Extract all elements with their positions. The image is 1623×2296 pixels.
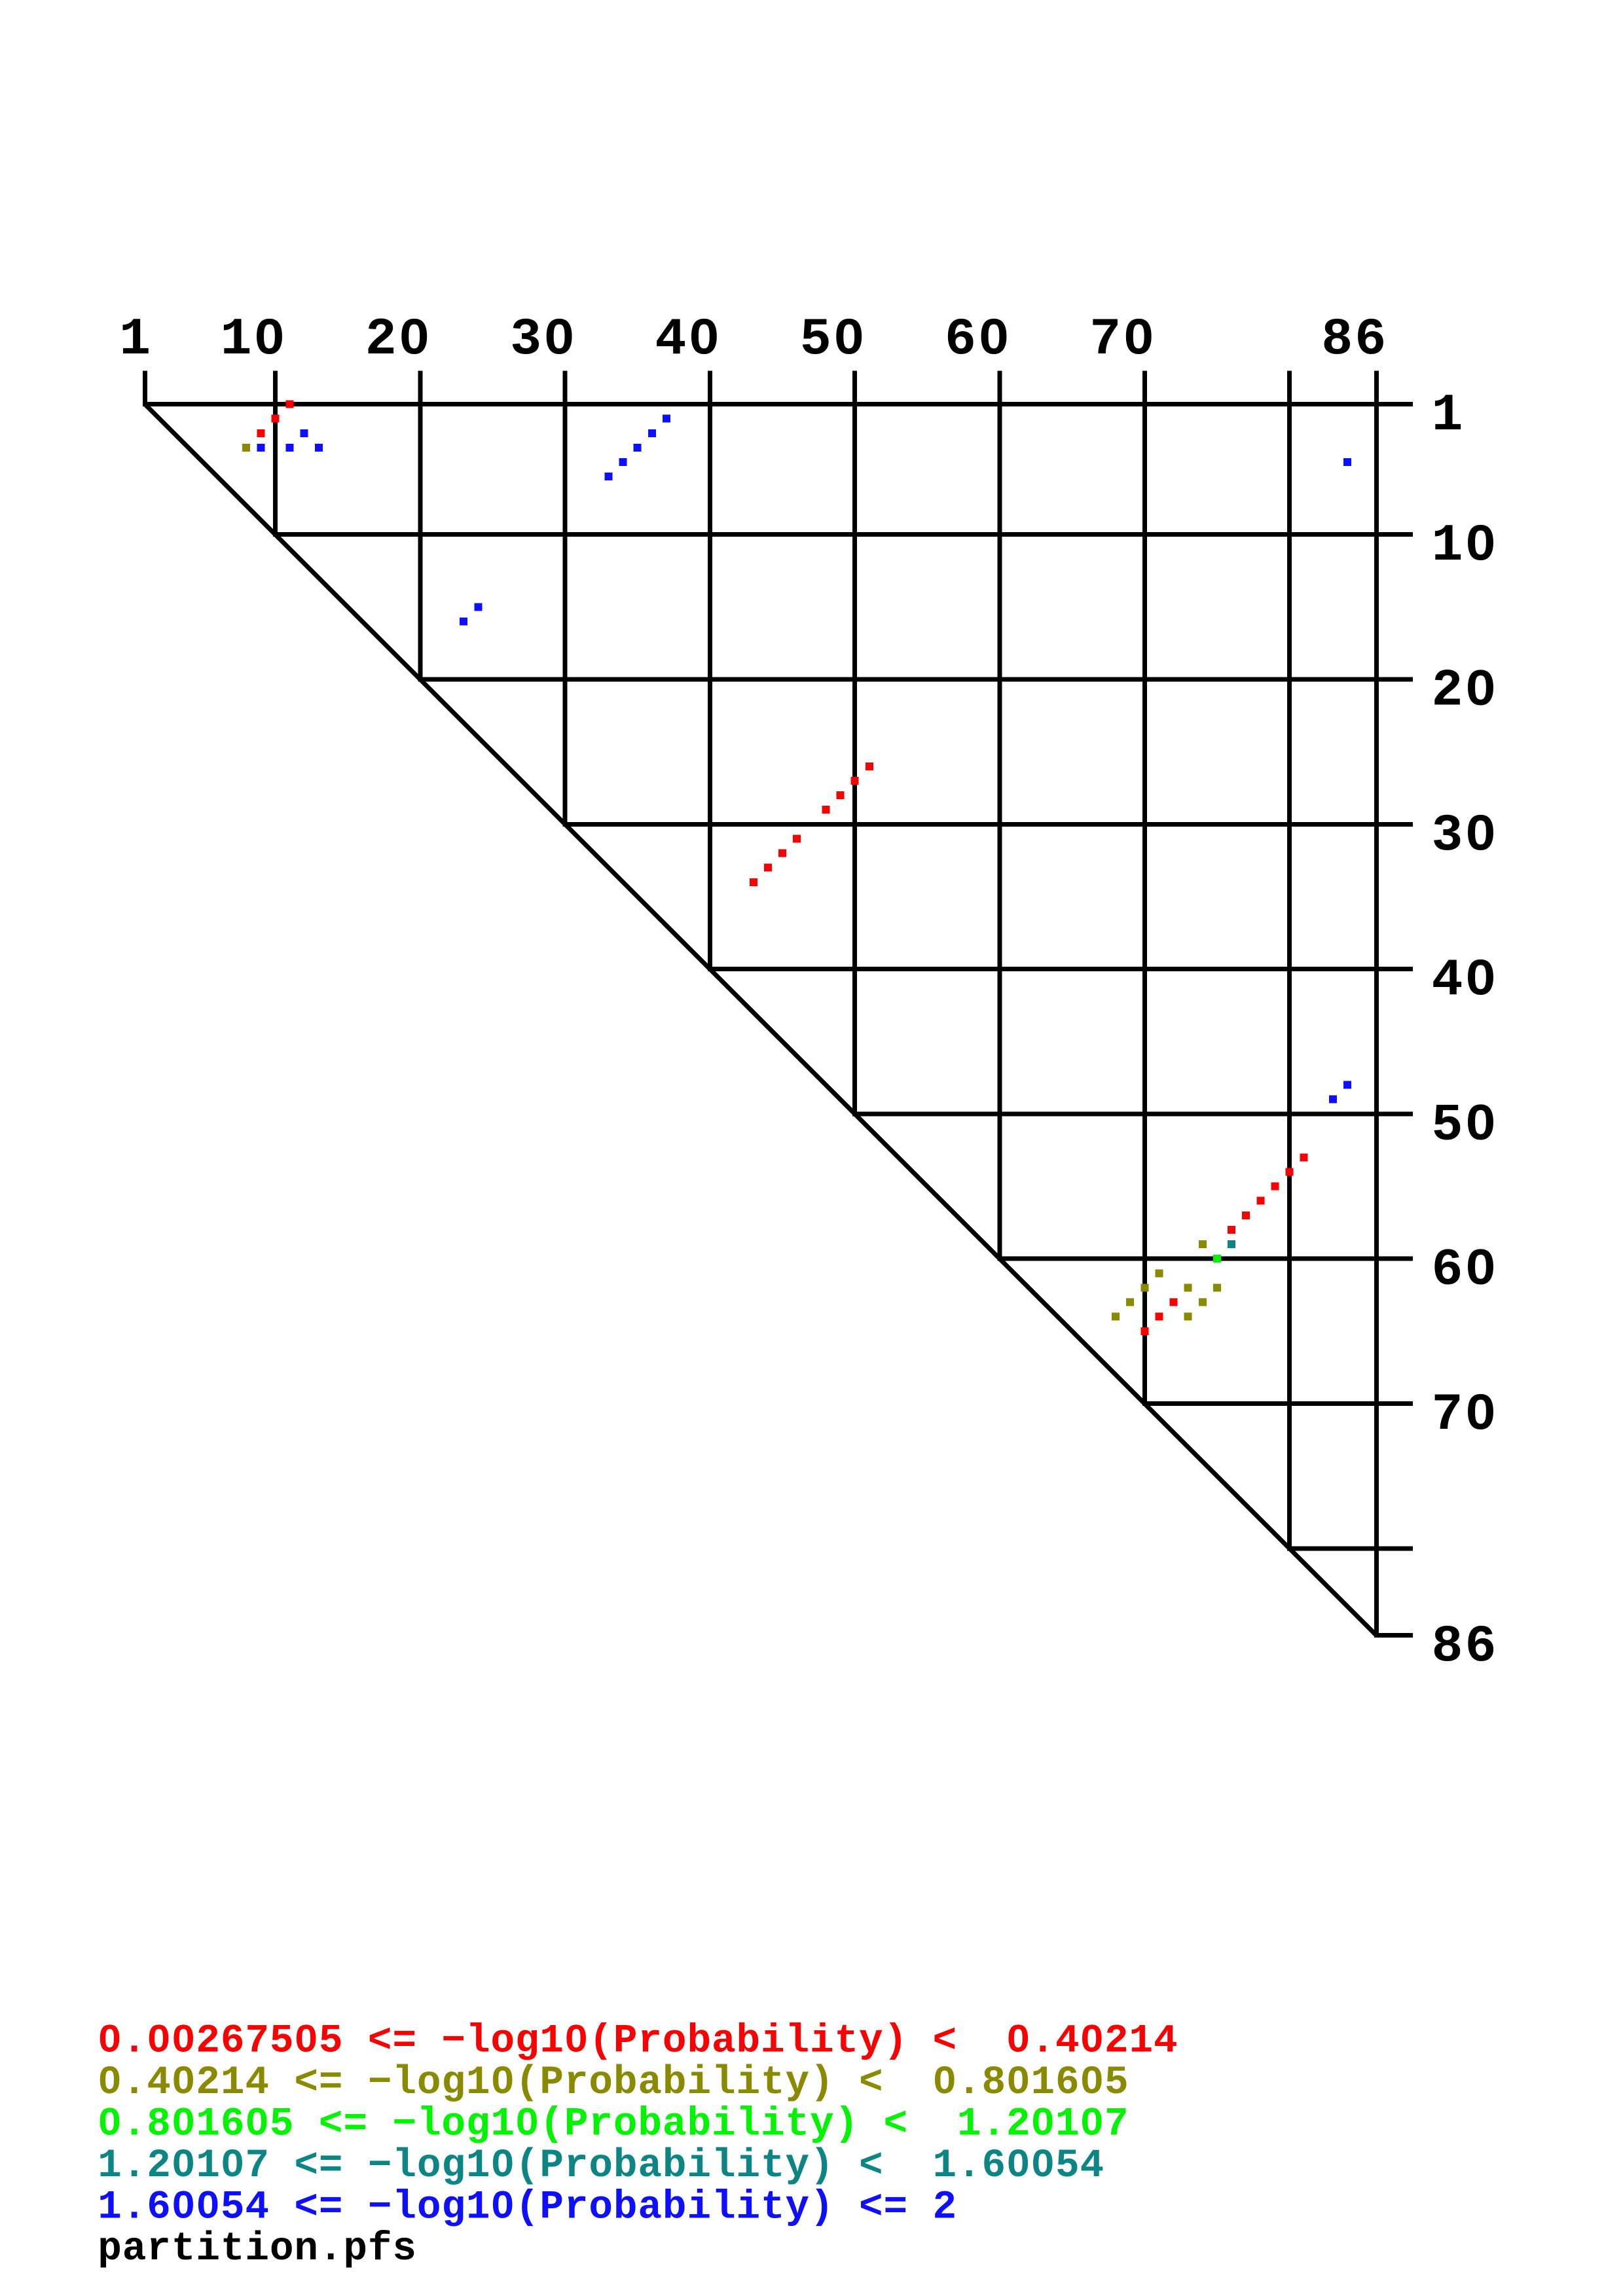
dot i=49 j=83 blue <box>1329 1096 1337 1103</box>
dot i=4 j=9 blue <box>257 444 264 452</box>
svg-text:60: 60 <box>945 310 1012 370</box>
svg-text:1: 1 <box>119 310 153 370</box>
dot i=34 j=43 red <box>750 878 757 886</box>
svg-text:partition.pfs: partition.pfs <box>98 2227 417 2272</box>
dot i=62 j=70 olive <box>1140 1283 1148 1291</box>
svg-text:20: 20 <box>365 310 432 370</box>
dot i=4 j=11 blue <box>286 444 294 452</box>
svg-text:70: 70 <box>1089 310 1156 370</box>
dot i=57 j=77 red <box>1242 1211 1250 1219</box>
column grid line position 50 <box>852 371 857 1117</box>
dot i=61 j=71 olive <box>1155 1269 1163 1277</box>
dot i=29 j=48 red <box>822 806 830 814</box>
patches to plain ovals for zero glyphs <box>107 331 1484 2208</box>
svg-text:10: 10 <box>220 310 287 370</box>
dot i=62 j=73 olive <box>1184 1283 1192 1291</box>
dot i=4 j=35 blue <box>634 444 642 452</box>
dot i=63 j=69 olive <box>1126 1299 1134 1306</box>
svg-text:50: 50 <box>1432 1096 1499 1155</box>
row grid line row 80 <box>1287 1546 1413 1551</box>
row grid line row 70 <box>1142 1401 1413 1406</box>
dot i=55 j=79 red <box>1271 1183 1279 1191</box>
tick position 1 <box>143 371 147 407</box>
dot i=4 j=8 olive <box>242 444 250 452</box>
row grid line row 20 <box>418 677 1413 682</box>
dot i=48 j=84 blue <box>1343 1081 1351 1089</box>
dot i=6 j=33 blue <box>605 473 613 480</box>
column grid line position 60 <box>998 371 1002 1261</box>
column grid line position 30 <box>563 371 568 827</box>
dot i=64 j=71 red <box>1155 1313 1163 1321</box>
dot i=3 j=9 red <box>257 429 264 437</box>
svg-text:50: 50 <box>800 310 867 370</box>
row grid line row 60 <box>998 1257 1413 1261</box>
svg-text:60: 60 <box>1432 1241 1499 1300</box>
dot i=59 j=76 teal <box>1228 1240 1235 1248</box>
row grid line row 86 <box>1374 1633 1413 1638</box>
svg-text:86: 86 <box>1432 1617 1499 1677</box>
row grid line row 30 <box>563 822 1413 827</box>
svg-text:1.60054 <= −log10(Probability): 1.60054 <= −log10(Probability) <= 2 <box>98 2185 957 2231</box>
dot i=65 j=70 red <box>1140 1327 1148 1335</box>
svg-text:1: 1 <box>1432 386 1465 446</box>
svg-text:30: 30 <box>510 310 577 370</box>
column grid line position 80 <box>1287 371 1292 1551</box>
svg-text:30: 30 <box>1432 806 1499 866</box>
svg-text:10: 10 <box>1432 516 1499 576</box>
dot i=26 j=51 red <box>866 762 873 770</box>
dot i=33 j=44 red <box>764 864 772 872</box>
svg-text:70: 70 <box>1432 1386 1499 1445</box>
row grid line row 50 <box>852 1111 1413 1116</box>
svg-text:20: 20 <box>1432 662 1499 721</box>
column grid line position 10 <box>273 371 278 537</box>
dot i=1 j=11 red <box>286 401 294 408</box>
svg-text:0.40214 <= −log10(Probability): 0.40214 <= −log10(Probability) < 0.80160… <box>98 2060 1129 2106</box>
dot i=60 j=75 green <box>1213 1255 1221 1263</box>
dot i=63 j=74 olive <box>1199 1299 1207 1306</box>
dot i=63 j=72 red <box>1170 1299 1178 1306</box>
dot i=3 j=36 blue <box>648 429 656 437</box>
svg-text:1.20107 <= −log10(Probability): 1.20107 <= −log10(Probability) < 1.60054 <box>98 2144 1104 2189</box>
svg-text:40: 40 <box>655 310 721 370</box>
dot i=28 j=49 red <box>837 791 845 799</box>
svg-text:86: 86 <box>1321 310 1388 370</box>
row grid line row 40 <box>708 967 1413 971</box>
dot i=64 j=73 olive <box>1184 1313 1192 1321</box>
row grid line row 10 <box>273 532 1413 537</box>
dot i=2 j=37 blue <box>663 415 670 423</box>
dot i=62 j=75 olive <box>1213 1283 1221 1291</box>
dot i=2 j=10 red <box>272 415 280 423</box>
dot i=16 j=23 blue <box>460 618 467 626</box>
dot i=27 j=50 red <box>851 777 859 785</box>
top axis line (row 1) <box>143 402 1413 406</box>
dot i=56 j=78 red <box>1256 1197 1264 1205</box>
column grid line position 20 <box>418 371 422 682</box>
svg-text:0.801605 <= −log10(Probability: 0.801605 <= −log10(Probability) < 1.2010… <box>98 2102 1129 2147</box>
diagonal (hypotenuse) <box>145 404 1376 1636</box>
dot i=53 j=81 red <box>1300 1153 1308 1161</box>
dot i=15 j=24 blue <box>474 603 482 611</box>
dot i=54 j=80 red <box>1286 1168 1294 1175</box>
dot i=32 j=45 red <box>778 850 786 857</box>
column grid line position 86 <box>1374 371 1379 1638</box>
dot i=31 j=46 red <box>793 834 801 842</box>
dot i=5 j=34 blue <box>619 458 627 466</box>
dot i=58 j=76 red <box>1228 1226 1235 1234</box>
svg-text:40: 40 <box>1432 951 1499 1011</box>
dot i=4 j=13 blue <box>315 444 323 452</box>
column grid line position 70 <box>1142 371 1147 1407</box>
dot i=59 j=74 olive <box>1199 1240 1207 1248</box>
column grid line position 40 <box>708 371 712 972</box>
dot i=64 j=68 olive <box>1112 1313 1120 1321</box>
dot i=3 j=12 blue <box>301 429 308 437</box>
dot i=5 j=84 blue <box>1343 458 1351 466</box>
